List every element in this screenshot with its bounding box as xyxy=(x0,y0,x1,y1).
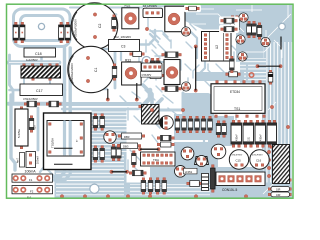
capacitor C5 film xyxy=(231,120,242,147)
transistor Q4 xyxy=(236,35,245,44)
trimmer R33 xyxy=(122,59,142,86)
diode D4 xyxy=(65,22,70,43)
transistor Q11 xyxy=(175,166,187,178)
wire ring inner xyxy=(21,16,64,41)
svg-text:C2: C2 xyxy=(98,24,102,28)
svg-text:ETD34: ETD34 xyxy=(230,90,240,94)
svg-text:470uF/35V: 470uF/35V xyxy=(252,155,263,157)
capacitor C19 xyxy=(17,152,40,168)
capacitor C1 electrolytic xyxy=(68,46,114,92)
resistor R1 xyxy=(175,116,180,133)
plane bottom-left striped xyxy=(55,151,127,198)
wire C18 stubs xyxy=(27,47,54,57)
diode D6 dark xyxy=(211,165,216,193)
via pad n11 xyxy=(244,195,247,198)
wire left edge vertical xyxy=(10,55,14,101)
svg-text:101: 101 xyxy=(248,136,251,141)
inductor L1 hatched xyxy=(139,105,162,125)
resistor R27 xyxy=(46,101,61,107)
resistor R26 xyxy=(24,101,40,107)
via pad n13 xyxy=(286,125,289,128)
resistor R9 xyxy=(129,170,146,175)
diode DB4 label box xyxy=(117,143,141,149)
plane above TS1 xyxy=(196,72,244,81)
wire jumper W7 xyxy=(106,89,109,101)
resistor R14 power 5.6/5w xyxy=(15,107,28,149)
wire left of TS2 xyxy=(37,108,40,150)
wire band mid extended xyxy=(62,102,140,106)
svg-text:CT8.8PV: CT8.8PV xyxy=(142,74,152,77)
capacitor C12 xyxy=(187,181,202,187)
connector K2 xyxy=(141,63,163,77)
resistor R21 xyxy=(162,52,182,57)
wire ribbon inside TS2 xyxy=(54,156,70,180)
svg-text:1K2_1W/20V: 1K2_1W/20V xyxy=(114,35,132,39)
svg-text:F2: F2 xyxy=(30,189,34,193)
plane bottom mid xyxy=(150,167,263,184)
svg-text:400nF: 400nF xyxy=(236,134,239,141)
resistor R34 xyxy=(141,178,146,195)
resistor R11b vertical xyxy=(93,146,98,163)
resistor R13b vertical xyxy=(117,144,122,161)
resistor R7 xyxy=(157,135,174,140)
transistor Q7 xyxy=(104,131,116,143)
relay RL2 xyxy=(164,60,180,85)
transistor Q9 xyxy=(181,147,194,160)
svg-text:10R: 10R xyxy=(276,188,281,191)
transistor Q12 xyxy=(211,144,226,159)
resistor R42 xyxy=(184,5,201,12)
svg-text:C15: C15 xyxy=(236,159,242,163)
resistor R22 xyxy=(162,86,182,91)
wire jumper W1 xyxy=(280,37,282,50)
wire vertical ribbon pair xyxy=(65,48,71,118)
resistor R4 xyxy=(195,116,200,133)
wire bottom long trace xyxy=(60,195,288,197)
inductor L2 hatched xyxy=(270,145,291,184)
mounting hole H1 xyxy=(38,23,44,29)
connector K3 xyxy=(143,5,163,17)
wire wide diagonal mid xyxy=(141,90,150,108)
capacitor C15 electrolytic xyxy=(229,150,248,169)
wire jumper W4 xyxy=(138,148,160,151)
wire horizontal band upper-left xyxy=(9,60,59,65)
via pad n8 xyxy=(126,195,129,198)
svg-text:DB3: DB3 xyxy=(124,135,130,139)
wire jumper W2 xyxy=(256,65,282,68)
plane top band xyxy=(183,5,292,30)
svg-text:5.6/5w: 5.6/5w xyxy=(17,128,21,138)
svg-text:1uF/250V: 1uF/250V xyxy=(26,58,38,62)
wire cap C1 stubs xyxy=(88,50,107,89)
wire ring outer (rectifier loop) xyxy=(14,9,71,47)
capacitor C11 striped xyxy=(202,174,209,191)
wire top edge horizontal xyxy=(70,7,142,9)
transformer TS2 xyxy=(44,113,92,170)
wire jumper W5 xyxy=(110,170,129,173)
capacitor C2 electrolytic xyxy=(71,3,117,49)
via pad column right xyxy=(267,150,270,177)
IC U2 xyxy=(202,32,232,62)
capacitor C3 xyxy=(109,35,140,52)
label LF351 xyxy=(184,168,198,174)
svg-text:DB3: DB3 xyxy=(123,145,129,149)
white streaks on top-right block xyxy=(188,5,291,194)
resistor R23 vertical xyxy=(112,64,117,81)
via pad n1 xyxy=(145,27,148,30)
TRACES xyxy=(9,6,289,196)
plane right mid horizontal stripes xyxy=(240,58,266,84)
svg-text:C1: C1 xyxy=(94,68,98,72)
via pad xyxy=(249,73,253,77)
resistor R44 vertical xyxy=(150,58,155,75)
wire bottom connector feed xyxy=(180,178,215,180)
resistor R18 vertical xyxy=(247,21,252,38)
resistor R5 xyxy=(201,116,206,133)
resistor R19 vertical xyxy=(230,16,235,33)
svg-text:100mA: 100mA xyxy=(37,156,40,164)
svg-text:4m7: 4m7 xyxy=(17,158,20,163)
resistor R38 vertical xyxy=(216,121,221,138)
diode D2 xyxy=(20,22,25,43)
resistor R12b vertical xyxy=(100,146,105,163)
svg-text:TDA: TDA xyxy=(153,158,159,162)
fuse F2 xyxy=(12,186,53,194)
svg-text:3300uF/200V: 3300uF/200V xyxy=(74,19,78,37)
relay RL1 xyxy=(165,6,185,32)
plane top right block xyxy=(236,5,292,62)
wire left column vertical xyxy=(11,95,15,170)
capacitor C16 electrolytic xyxy=(250,150,269,169)
capacitor C17 xyxy=(20,84,63,101)
IC U1 xyxy=(141,152,176,166)
fuse F1 xyxy=(12,174,53,182)
PLANES xyxy=(55,5,293,198)
plane behind resistor column xyxy=(174,114,214,140)
svg-text:100mA: 100mA xyxy=(25,170,37,174)
svg-text:F1: F1 xyxy=(29,178,33,182)
svg-text:C3: C3 xyxy=(121,45,125,49)
via pad n6 xyxy=(83,195,86,198)
resistor R37 xyxy=(162,178,167,195)
wire TS2-left down xyxy=(40,150,44,172)
resistor R36 xyxy=(155,178,160,195)
resistor R25 xyxy=(130,52,145,57)
transistor Q1 xyxy=(181,27,190,36)
svg-text:R29: R29 xyxy=(34,125,37,130)
plane below TS1 xyxy=(208,116,234,146)
svg-text:TS2/5A: TS2/5A xyxy=(51,138,55,148)
via pad n3 xyxy=(150,108,153,111)
resistor R11 vertical xyxy=(93,114,98,131)
svg-text:3300uF/200V: 3300uF/200V xyxy=(70,63,74,81)
transistor Q3 xyxy=(239,13,248,22)
resistor R45 vertical xyxy=(156,58,161,75)
wire jumper W6 xyxy=(135,83,138,101)
diode D5 vertical xyxy=(268,70,273,84)
plane left of TS1 xyxy=(182,93,211,116)
wire horizontal band mid-left xyxy=(9,102,63,106)
svg-text:10R: 10R xyxy=(276,194,281,197)
resistor R35 xyxy=(148,178,153,195)
transistor Q5 xyxy=(261,37,270,46)
resistor R24 vertical xyxy=(112,15,117,32)
via pad n5 xyxy=(60,195,63,198)
wire to TS1 top xyxy=(246,64,248,80)
wire jumper circle JP1 xyxy=(142,57,151,66)
via pad n12 xyxy=(270,105,273,108)
svg-text:TS1: TS1 xyxy=(234,107,240,111)
resistor R28 hatched power xyxy=(21,64,61,81)
jumper J1 xyxy=(268,187,291,192)
resistor R15 xyxy=(226,72,241,77)
svg-text:U2: U2 xyxy=(215,45,219,49)
transistor Q8 TO92 xyxy=(159,116,173,130)
jumper J2 xyxy=(268,192,291,197)
trimmer R32 xyxy=(122,4,139,29)
board frame xyxy=(7,4,294,198)
wire C17 stubs xyxy=(10,89,66,92)
wire mid extra texture xyxy=(128,64,224,176)
wire jumper W3 xyxy=(194,45,197,92)
capacitor C7 film xyxy=(255,120,266,147)
via pad n4 xyxy=(181,108,184,111)
via pad n9 xyxy=(148,195,151,198)
resistor R43 vertical xyxy=(230,56,235,73)
svg-text:CON10L-5: CON10L-5 xyxy=(222,188,237,192)
resistor R46 xyxy=(147,73,164,79)
resistor R20 vertical xyxy=(235,16,240,33)
resistor R41 xyxy=(219,25,239,33)
resistor R10 vertical xyxy=(132,151,137,168)
resistor R3 xyxy=(188,116,193,133)
resistor R39 vertical xyxy=(222,121,227,138)
svg-text:C17: C17 xyxy=(36,89,43,93)
wire hatch to C17 stubs xyxy=(24,79,50,84)
transistor Q10 xyxy=(195,155,209,166)
svg-text:C16: C16 xyxy=(256,159,262,163)
capacitor C6 film xyxy=(243,120,254,147)
resistor R6 xyxy=(208,116,213,133)
resistor R8 xyxy=(157,142,174,147)
capacitor C18 xyxy=(24,48,56,62)
transformer TS1 xyxy=(211,81,265,118)
resistor R16 vertical xyxy=(257,23,262,40)
wire winding mark TS2 xyxy=(54,148,73,164)
resistor R2 xyxy=(182,116,187,133)
mounting hole H3 xyxy=(90,184,99,193)
svg-text:400nF: 400nF xyxy=(260,134,263,141)
svg-text:LF351: LF351 xyxy=(185,170,193,174)
capacitor C8 film xyxy=(267,120,277,147)
wire below C1 xyxy=(114,52,117,88)
svg-text:C18: C18 xyxy=(35,52,42,56)
transistor Q2 xyxy=(181,82,190,91)
wire ring bottom stub xyxy=(40,47,43,61)
svg-text:470uF/35V: 470uF/35V xyxy=(232,155,243,157)
resistor R40 xyxy=(219,17,239,25)
svg-text:Tr: Tr xyxy=(75,139,79,142)
diode D1 xyxy=(13,22,18,43)
plane right band striped xyxy=(262,30,292,198)
via pad n7 xyxy=(106,195,109,198)
plane bottom mid transistor area xyxy=(174,142,218,170)
via pad n2 xyxy=(145,59,148,62)
resistor R13 vertical xyxy=(111,144,116,161)
plane right of TS2 striped xyxy=(92,110,127,152)
transistor Q6 xyxy=(238,52,247,61)
wire mid diagonals xyxy=(141,30,156,45)
diode D3 xyxy=(59,22,64,43)
plane bottom strip xyxy=(126,183,292,198)
wire texture mid thin xyxy=(120,12,238,143)
diode DB3 label box xyxy=(118,133,145,139)
svg-text:470nF/250V: 470nF/250V xyxy=(23,97,38,101)
resistor R12 vertical xyxy=(100,114,105,131)
connector CON10L-5 xyxy=(216,172,265,192)
wire cap C2 stubs xyxy=(95,15,116,49)
via pad n10 xyxy=(194,195,197,198)
resistor R17 vertical xyxy=(252,21,257,38)
mounting hole H2 xyxy=(279,23,286,30)
resistor R29 vertical xyxy=(29,116,34,133)
